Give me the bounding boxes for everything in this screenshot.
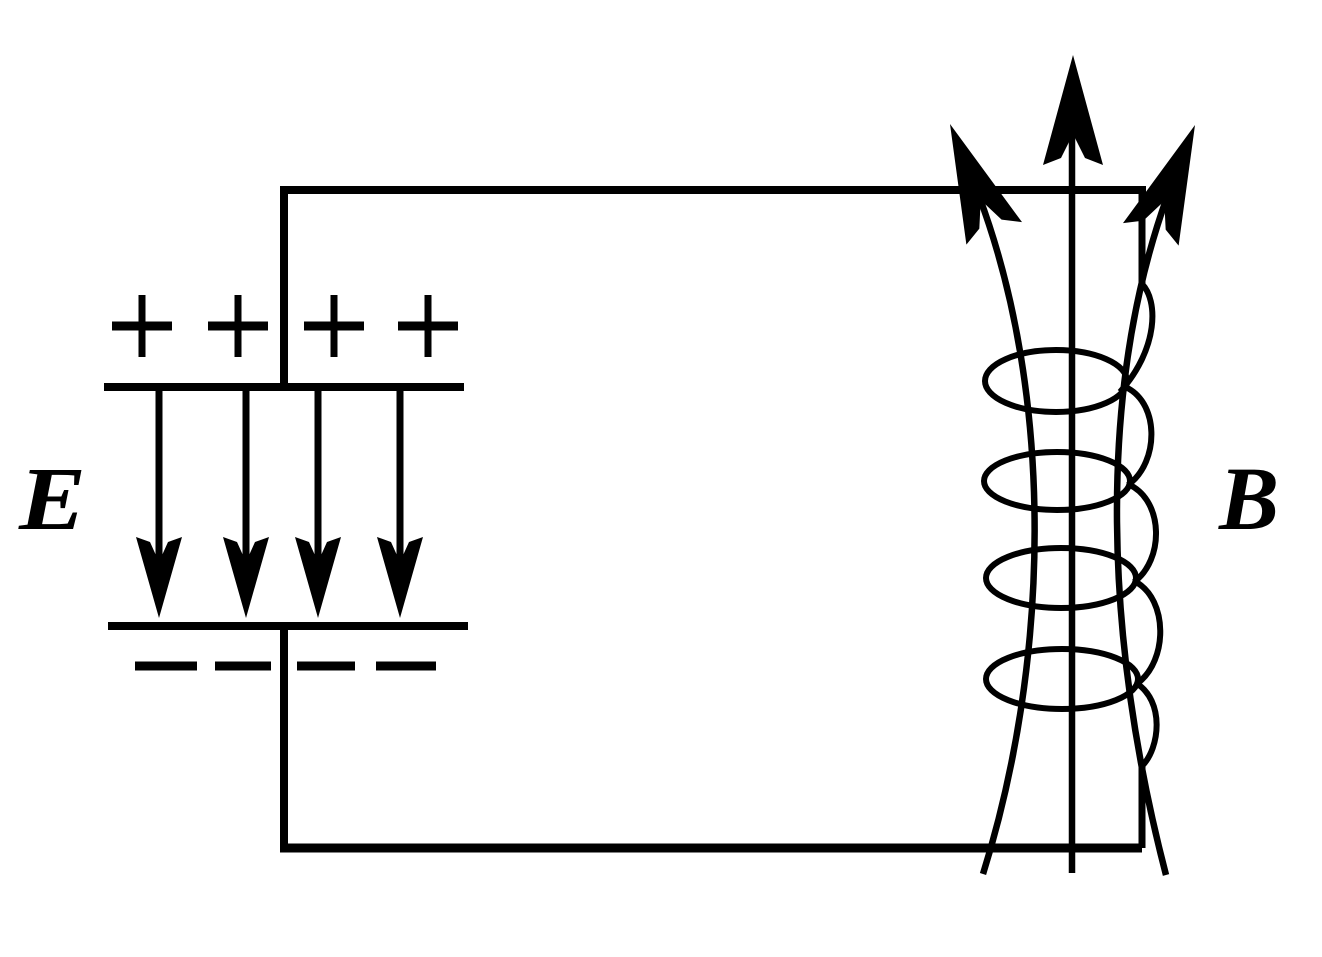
svg-text:B: B [1218,450,1279,549]
svg-text:E: E [18,450,86,549]
